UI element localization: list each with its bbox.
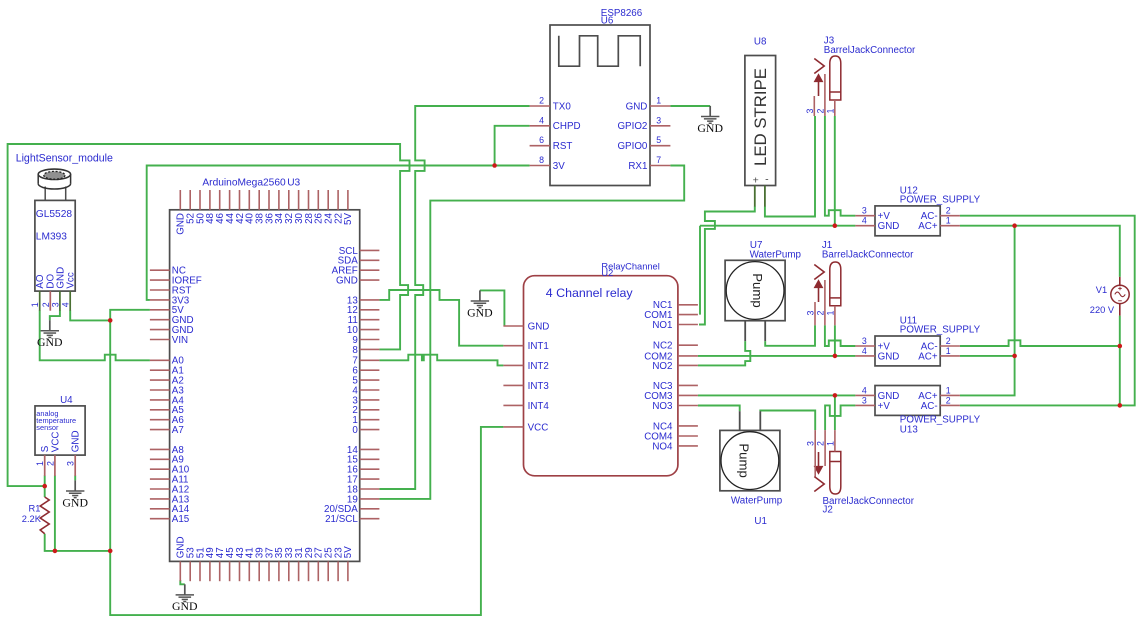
svg-text:5: 5 (656, 135, 661, 145)
svg-text:WaterPump: WaterPump (731, 496, 783, 507)
svg-text:Vcc: Vcc (66, 272, 77, 288)
svg-text:3: 3 (806, 311, 816, 316)
svg-text:INT2: INT2 (528, 361, 549, 372)
svg-text:GND: GND (71, 430, 82, 452)
svg-text:WaterPump: WaterPump (750, 249, 802, 260)
svg-text:BarrelJackConnector: BarrelJackConnector (823, 496, 915, 507)
svg-text:TX0: TX0 (553, 101, 572, 112)
svg-text:GND: GND (62, 495, 88, 509)
svg-text:8: 8 (352, 345, 358, 356)
svg-text:1: 1 (946, 385, 951, 395)
svg-text:VCC: VCC (50, 432, 61, 453)
svg-text:RX1: RX1 (628, 161, 647, 172)
svg-text:21/SCL: 21/SCL (325, 514, 358, 525)
svg-text:CHPD: CHPD (553, 121, 581, 132)
svg-text:3V: 3V (553, 161, 565, 172)
svg-text:0: 0 (352, 425, 358, 436)
svg-text:3: 3 (656, 115, 661, 125)
svg-text:NO2: NO2 (652, 361, 672, 372)
svg-text:2: 2 (946, 336, 951, 346)
svg-text:INT1: INT1 (528, 341, 549, 352)
svg-text:NO4: NO4 (652, 441, 673, 452)
svg-text:5V: 5V (343, 546, 354, 558)
svg-text:NO1: NO1 (652, 320, 672, 331)
svg-text:3: 3 (862, 336, 867, 346)
svg-text:GND: GND (697, 121, 723, 135)
svg-text:NO3: NO3 (652, 401, 673, 412)
svg-text:3: 3 (50, 302, 60, 307)
svg-text:2: 2 (815, 109, 825, 114)
svg-text:2: 2 (946, 206, 951, 216)
svg-text:1: 1 (946, 216, 951, 226)
svg-text:AO: AO (35, 274, 46, 289)
svg-text:1: 1 (825, 311, 835, 316)
svg-text:3: 3 (862, 206, 867, 216)
svg-text:U8: U8 (754, 36, 767, 47)
svg-text:1: 1 (35, 461, 45, 466)
svg-text:sensor: sensor (36, 423, 59, 432)
svg-text:2: 2 (45, 461, 55, 466)
svg-text:A7: A7 (172, 425, 184, 436)
svg-text:2: 2 (815, 311, 825, 316)
svg-text:+V: +V (878, 401, 891, 412)
svg-text:2: 2 (946, 395, 951, 405)
svg-text:U6: U6 (601, 15, 614, 26)
svg-text:LM393: LM393 (36, 231, 67, 242)
svg-text:1: 1 (30, 302, 40, 307)
svg-text:GND: GND (467, 305, 493, 319)
svg-text:GND: GND (878, 351, 900, 362)
svg-text:3: 3 (862, 395, 867, 405)
svg-text:4 Channel relay: 4 Channel relay (546, 286, 634, 300)
svg-text:3: 3 (806, 441, 816, 446)
svg-text:GND: GND (878, 221, 900, 232)
svg-text:POWER_SUPPLY: POWER_SUPPLY (900, 325, 981, 336)
svg-text:U2: U2 (601, 268, 613, 278)
svg-text:U4: U4 (60, 395, 73, 406)
svg-text:4: 4 (61, 302, 71, 307)
svg-text:BarrelJackConnector: BarrelJackConnector (824, 45, 916, 56)
svg-text:INT3: INT3 (528, 381, 550, 392)
svg-text:6: 6 (539, 135, 544, 145)
svg-text:1: 1 (656, 96, 661, 106)
svg-text:GND: GND (172, 599, 198, 613)
svg-text:1: 1 (946, 346, 951, 356)
svg-text:1: 1 (825, 441, 835, 446)
svg-text:AC+: AC+ (918, 221, 938, 232)
svg-text:4: 4 (539, 115, 544, 125)
svg-text:U3: U3 (287, 177, 300, 188)
svg-text:GL5528: GL5528 (36, 209, 73, 220)
svg-text:LightSensor_module: LightSensor_module (16, 153, 113, 165)
svg-text:ArduinoMega2560: ArduinoMega2560 (202, 177, 286, 188)
svg-text:GND: GND (37, 335, 63, 349)
svg-text:A15: A15 (172, 514, 190, 525)
svg-text:J2: J2 (823, 504, 833, 515)
svg-text:GPIO2: GPIO2 (617, 121, 647, 132)
svg-text:LED STRIPE: LED STRIPE (751, 68, 770, 166)
svg-text:U1: U1 (754, 516, 767, 527)
svg-text:4: 4 (862, 346, 867, 356)
svg-text:2: 2 (539, 96, 544, 106)
svg-text:4: 4 (862, 216, 867, 226)
svg-text:POWER_SUPPLY: POWER_SUPPLY (900, 195, 981, 206)
svg-text:Pump: Pump (737, 443, 752, 477)
svg-text:AC+: AC+ (918, 351, 938, 362)
svg-text:VIN: VIN (172, 335, 188, 346)
svg-text:U13: U13 (900, 424, 919, 435)
svg-text:GND: GND (336, 276, 358, 287)
svg-text:BarrelJackConnector: BarrelJackConnector (822, 249, 914, 260)
svg-text:Pump: Pump (750, 273, 765, 307)
svg-text:7: 7 (656, 155, 661, 165)
svg-text:2: 2 (41, 302, 51, 307)
svg-text:220 V: 220 V (1090, 305, 1115, 315)
svg-text:GND: GND (528, 321, 550, 332)
svg-text:-: - (765, 174, 769, 186)
svg-text:8: 8 (539, 155, 544, 165)
svg-text:3: 3 (66, 461, 76, 466)
svg-text:GPIO0: GPIO0 (617, 141, 647, 152)
svg-text:VCC: VCC (528, 422, 549, 433)
svg-text:1: 1 (825, 109, 835, 114)
svg-text:NC2: NC2 (653, 341, 673, 352)
svg-text:2: 2 (816, 441, 826, 446)
svg-text:V1: V1 (1096, 285, 1107, 295)
svg-text:RST: RST (553, 141, 573, 152)
svg-text:5V: 5V (343, 213, 354, 225)
svg-text:R1: R1 (29, 504, 41, 514)
svg-text:+: + (753, 175, 759, 187)
svg-text:INT4: INT4 (528, 401, 550, 412)
svg-text:4: 4 (862, 385, 867, 395)
svg-text:AC-: AC- (921, 401, 938, 412)
svg-text:GND: GND (626, 101, 648, 112)
svg-text:2.2K: 2.2K (22, 514, 42, 524)
svg-text:3: 3 (805, 109, 815, 114)
